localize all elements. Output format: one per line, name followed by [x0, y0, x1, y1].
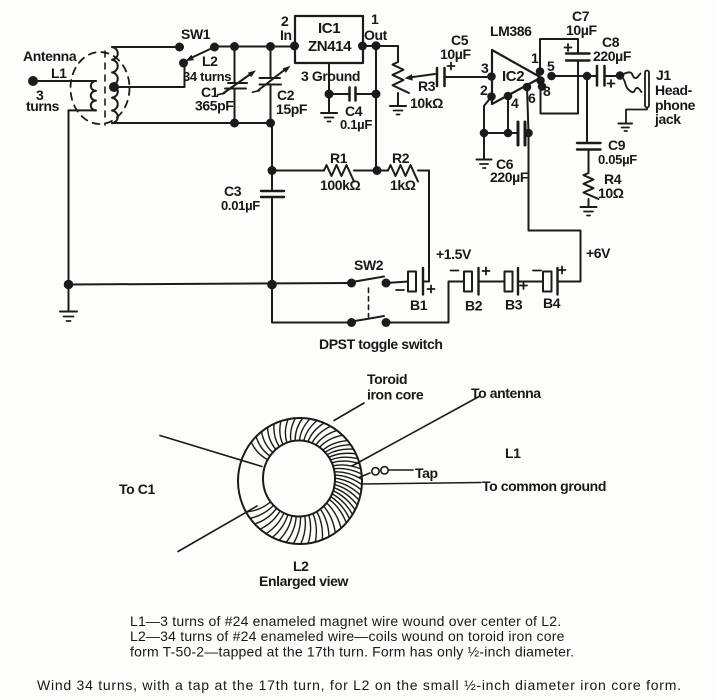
svg-text:DPST toggle switch: DPST toggle switch [319, 336, 442, 352]
C5 label [440, 32, 471, 62]
wire SW2 to B1 [386, 282, 408, 284]
C4 label [340, 103, 372, 132]
node L2 tap [109, 82, 119, 92]
capacitor C5 10uF [437, 63, 492, 87]
core line (dashed) [104, 51, 106, 125]
svg-text:100kΩ: 100kΩ [320, 177, 361, 193]
svg-text:R2: R2 [392, 150, 410, 166]
SW2 dashed link [368, 288, 370, 317]
resistor R2 1k [388, 165, 418, 182]
wire Out to R3 [363, 46, 398, 62]
svg-text:L2: L2 [293, 558, 309, 574]
svg-text:6: 6 [528, 90, 536, 106]
B3 label [505, 297, 523, 313]
ground (R3) [390, 106, 406, 115]
node pin5 [547, 72, 556, 81]
svg-text:+6V: +6V [586, 245, 611, 261]
node C6 right [524, 129, 533, 138]
svg-text:B2: B2 [465, 298, 483, 314]
op-amp U1 box IC1 ZN414 [295, 16, 363, 63]
node C4 right [372, 90, 381, 99]
svg-text:Enlarged view: Enlarged view [259, 573, 348, 589]
node jack tip [616, 71, 625, 80]
svg-text:220µF: 220µF [593, 48, 632, 64]
svg-text:L2—34 turns of #24 enameled wi: L2—34 turns of #24 enameled wire—coils w… [130, 628, 565, 644]
R2 label [390, 150, 416, 193]
svg-text:Antenna: Antenna [23, 48, 77, 64]
svg-text:SW2: SW2 [354, 257, 384, 273]
svg-text:Out: Out [364, 27, 388, 43]
caption line 4 [37, 677, 682, 693]
svg-text:turns: turns [26, 98, 60, 114]
svg-text:B4: B4 [543, 295, 561, 311]
antenna label [23, 48, 77, 114]
svg-text:L1: L1 [505, 445, 521, 461]
R3 wiper arrow [405, 74, 436, 81]
svg-text:B3: B3 [505, 297, 523, 313]
DPST label [319, 336, 442, 352]
wire pin6 down [527, 87, 529, 133]
wire ground rail [69, 283, 352, 285]
svg-text:10kΩ: 10kΩ [410, 95, 443, 111]
C8 label [593, 34, 632, 64]
wire L1 bottom to left riser [69, 109, 97, 111]
wire top rail SW1 to IC1 In [215, 46, 296, 48]
B1 label [410, 297, 428, 313]
svg-text:15pF: 15pF [276, 101, 308, 117]
svg-text:L1—3 turns of #24 enameled mag: L1—3 turns of #24 enameled magnet wire w… [130, 613, 561, 629]
B2 label [465, 298, 483, 314]
svg-text:L1: L1 [51, 65, 67, 81]
wire R2 to B1 riser [418, 171, 429, 282]
caption line 3 [130, 644, 574, 660]
svg-text:LM386: LM386 [490, 23, 532, 39]
node pin3 [487, 72, 496, 81]
svg-text:form T-50-2—tapped at the 17th: form T-50-2—tapped at the 17th turn. For… [130, 644, 574, 660]
svg-text:220µF: 220µF [490, 169, 529, 185]
ground (R4) [581, 207, 597, 216]
C6 label [490, 156, 529, 185]
svg-text:2: 2 [480, 82, 488, 98]
battery B3 [505, 268, 544, 295]
node pin1 [536, 67, 545, 76]
svg-text:SW1: SW1 [181, 26, 211, 42]
node IC1 In [290, 42, 299, 51]
wire bottom rail L2 to C3 corner [112, 122, 272, 124]
lead to C1 lower [178, 506, 257, 552]
lead to common ground [362, 483, 481, 485]
wire pin3 ground stub [328, 63, 330, 94]
capacitor C1 (variable 365pF) [218, 47, 257, 124]
svg-text:C9: C9 [608, 137, 626, 153]
wire L2 top to SW1 [112, 46, 180, 48]
node ground rail left [64, 280, 74, 290]
svg-text:R3: R3 [418, 78, 436, 94]
wire pin2 down [484, 97, 492, 134]
wire V+ to battery [529, 133, 581, 282]
svg-text:R1: R1 [330, 150, 348, 166]
SW1 label [181, 26, 231, 84]
antenna terminal [28, 76, 38, 86]
svg-text:To antenna: To antenna [471, 385, 541, 401]
wire output rail [552, 75, 598, 77]
B4 label [543, 295, 561, 311]
node IC2 gnd rail left [480, 129, 489, 138]
svg-text:IC1: IC1 [318, 20, 340, 37]
R4 label [598, 171, 624, 201]
wire jack sleeve to ground [626, 108, 647, 124]
lead to antenna [352, 396, 480, 466]
svg-text:0.01µF: 0.01µF [221, 198, 260, 213]
wire Out vertical to R1/R2 junction [375, 46, 377, 171]
battery B2 [451, 268, 505, 295]
node apex [536, 76, 545, 85]
node R1/R2 junction [373, 166, 382, 175]
svg-text:IC2: IC2 [502, 68, 524, 85]
node C2 bottom [266, 119, 275, 128]
wire pin4 down [507, 96, 509, 133]
inductor L1 [91, 81, 96, 110]
+6V label [586, 245, 611, 261]
svg-text:1: 1 [371, 11, 379, 27]
wire to SW2 lower pole [272, 285, 352, 323]
battery B1 [396, 268, 435, 295]
node C4 left [325, 90, 334, 99]
resistor R3 10k pot [393, 62, 410, 106]
svg-text:To common ground: To common ground [482, 478, 606, 494]
node R1 rail left [268, 166, 277, 175]
toroid windings [246, 418, 362, 544]
wire tap to SW1 [114, 63, 185, 87]
switch SW2 upper pole [347, 277, 391, 288]
ground (IC2 pin2) [477, 133, 492, 168]
svg-text:J1: J1 [656, 67, 671, 83]
node C3 bottom [267, 280, 277, 290]
svg-text:1kΩ: 1kΩ [390, 177, 416, 193]
svg-text:4: 4 [511, 95, 519, 111]
svg-text:In: In [280, 27, 292, 43]
node C6 left [504, 129, 513, 138]
wire C3 riser top [271, 123, 273, 191]
switch SW2 lower pole [347, 316, 391, 327]
resistor R1 100k [324, 165, 354, 182]
resistor R4 10ohm [584, 173, 599, 207]
inductor L2 [112, 47, 118, 123]
capacitor C7 10uF with loop pin1-pin8 [540, 39, 590, 114]
wire left riser [68, 110, 70, 284]
node C2 top [266, 42, 275, 51]
svg-text:Wind 34 turns, with a tap at t: Wind 34 turns, with a tap at the 17th tu… [37, 677, 682, 693]
ground (C4) [321, 94, 337, 122]
SW2 label [354, 257, 384, 273]
wire antenna to L1 [33, 80, 96, 82]
R1 label [320, 150, 361, 193]
wire SW2 lower to B2 [386, 282, 464, 323]
capacitor C8 220uF [597, 66, 620, 87]
svg-text:C3: C3 [224, 183, 242, 199]
caption line 2 [130, 628, 565, 644]
node pin6 [523, 83, 532, 92]
capacitor C2 (variable 15pF) [253, 47, 291, 124]
caption line 1 [130, 613, 561, 629]
svg-text:ZN414: ZN414 [308, 38, 352, 55]
ground (jack) [619, 124, 633, 132]
wire R1 to R2 [354, 170, 388, 172]
node C9 junction [583, 72, 592, 81]
svg-text:10µF: 10µF [566, 22, 597, 38]
tap squiggle [359, 467, 413, 478]
svg-text:3: 3 [481, 60, 489, 76]
capacitor C4 0.1uF [329, 88, 376, 101]
capacitor C6 220uF [484, 122, 529, 145]
svg-text:5: 5 [547, 58, 555, 74]
C7 label [566, 8, 597, 38]
C1 value label [195, 84, 234, 114]
toroid enlarged view: outer ring [238, 418, 362, 544]
capacitor C9 0.05uF [577, 76, 601, 173]
svg-text:34 turns: 34 turns [183, 69, 231, 84]
svg-text:Head-: Head- [655, 82, 693, 98]
capacitor C3 0.01uF [261, 191, 284, 285]
wire R1 rail [272, 170, 324, 172]
svg-text:365pF: 365pF [195, 98, 234, 114]
op-amp U2 IC2 LM386 [492, 50, 541, 104]
svg-text:10Ω: 10Ω [598, 185, 624, 201]
svg-text:iron core: iron core [367, 387, 424, 403]
pin 2 label [280, 13, 292, 43]
svg-text:0.05µF: 0.05µF [598, 152, 637, 167]
node C1 bottom [230, 119, 239, 128]
lead to C1 upper [160, 436, 262, 467]
svg-text:10µF: 10µF [440, 46, 471, 62]
svg-text:Toroid: Toroid [367, 371, 407, 387]
svg-text:3 Ground: 3 Ground [301, 68, 360, 84]
node IC1 Out [358, 42, 367, 51]
C2 value label [276, 87, 308, 117]
node pin4 [504, 92, 513, 101]
svg-text:To C1: To C1 [119, 481, 155, 497]
switch SW1 [175, 43, 184, 52]
+1.5V label [436, 246, 472, 262]
toroid inner ring [263, 441, 335, 517]
pin 1 label [364, 11, 388, 43]
pin 3 label [301, 68, 360, 84]
pointer toroid iron core [334, 403, 364, 421]
svg-text:B1: B1 [410, 297, 428, 313]
svg-text:1: 1 [531, 50, 539, 66]
toroid core (dashed) [71, 52, 130, 124]
svg-text:jack: jack [654, 111, 681, 127]
ground (main) [60, 285, 77, 322]
node pin2 [487, 92, 496, 101]
J1 label [654, 67, 696, 127]
node C1 top [230, 42, 239, 51]
svg-text:L2: L2 [202, 53, 218, 69]
svg-text:+1.5V: +1.5V [436, 246, 472, 262]
svg-text:Tap: Tap [415, 465, 438, 481]
battery B4 [533, 267, 566, 295]
toroid figure labels [119, 371, 606, 589]
C9 label [598, 137, 637, 167]
connector J1 headphone jack [620, 71, 649, 108]
node Out junction [372, 41, 381, 50]
pin labels IC2 [480, 50, 555, 111]
R3 label [410, 78, 443, 111]
C3 label [221, 183, 260, 213]
node pin8 [538, 82, 547, 91]
svg-text:0.1µF: 0.1µF [340, 117, 372, 132]
